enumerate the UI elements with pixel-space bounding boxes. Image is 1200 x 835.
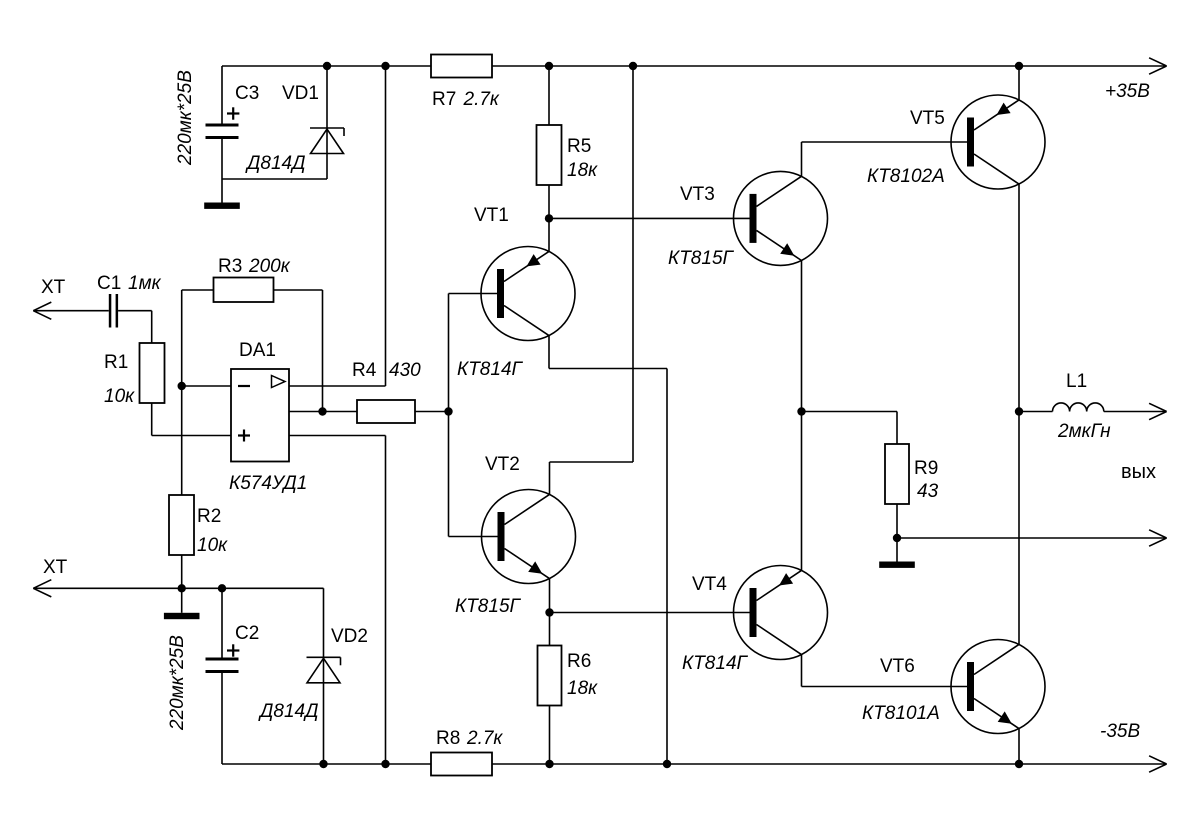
svg-text:КТ8102А: КТ8102А [867,166,945,187]
svg-text:L1: L1 [1066,371,1087,392]
svg-text:КТ8101А: КТ8101А [862,703,940,724]
svg-text:-35В: -35В [1100,721,1140,742]
svg-text:VT5: VT5 [910,108,945,129]
svg-text:200к: 200к [248,256,291,277]
svg-text:К574УД1: К574УД1 [229,473,307,494]
svg-text:220мк*25В: 220мк*25В [175,70,196,166]
svg-text:R4: R4 [352,360,377,381]
svg-text:C3: C3 [235,83,259,104]
svg-text:вых: вых [1121,461,1156,483]
svg-text:VT2: VT2 [485,454,520,475]
svg-text:VD2: VD2 [331,626,368,647]
svg-text:43: 43 [917,481,939,502]
svg-text:R5: R5 [567,136,591,157]
svg-text:XT: XT [41,277,66,298]
svg-text:+35В: +35В [1105,81,1150,102]
svg-text:2.7к: 2.7к [463,89,500,110]
svg-text:18к: 18к [567,678,598,699]
svg-text:DA1: DA1 [239,340,276,361]
svg-text:КТ815Г: КТ815Г [668,248,735,269]
svg-text:R9: R9 [914,458,938,479]
svg-text:XT: XT [43,557,68,578]
svg-text:VT3: VT3 [680,184,715,205]
svg-text:R2: R2 [197,506,221,527]
svg-text:R3: R3 [218,256,242,277]
svg-text:VD1: VD1 [282,83,319,104]
svg-text:КТ815Г: КТ815Г [455,596,522,617]
svg-text:220мк*25В: 220мк*25В [167,635,188,731]
svg-text:VT4: VT4 [692,574,727,595]
svg-text:КТ814Г: КТ814Г [682,653,749,674]
svg-text:R8: R8 [436,728,460,749]
svg-text:Д814Д: Д814Д [245,153,305,174]
svg-text:КТ814Г: КТ814Г [457,359,524,380]
svg-text:VT1: VT1 [474,205,509,226]
svg-text:VT6: VT6 [880,656,915,677]
svg-text:R6: R6 [567,651,591,672]
svg-text:R1: R1 [104,352,128,373]
svg-text:C1: C1 [97,273,121,294]
svg-text:430: 430 [389,360,421,381]
svg-text:R7: R7 [432,89,456,110]
svg-text:10к: 10к [104,386,135,407]
svg-text:1мк: 1мк [128,273,162,294]
svg-text:Д814Д: Д814Д [258,701,318,722]
svg-text:18к: 18к [567,160,598,181]
svg-text:C2: C2 [235,623,259,644]
svg-text:2.7к: 2.7к [466,728,503,749]
svg-text:10к: 10к [197,535,228,556]
svg-text:2мкГн: 2мкГн [1057,421,1111,442]
